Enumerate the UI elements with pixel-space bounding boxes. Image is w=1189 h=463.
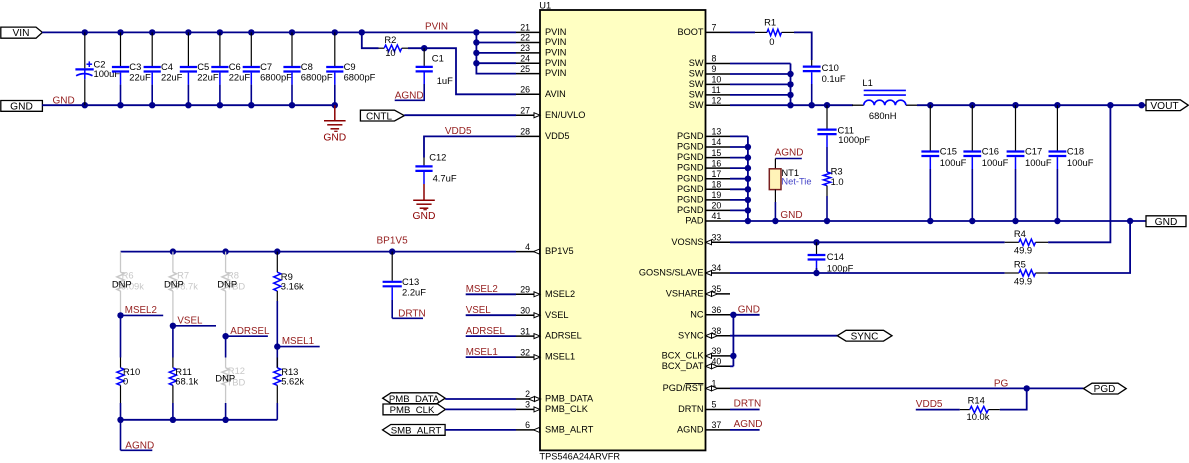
wire PGND pin 20	[730, 209, 748, 211]
IC U1 TPS546A24ARVFR body	[540, 10, 706, 450]
capacitor C16 100uF	[971, 105, 973, 150]
svg-text:PG: PG	[994, 378, 1009, 389]
dot C14 top	[813, 239, 819, 245]
svg-text:2.2uF: 2.2uF	[402, 287, 426, 298]
svg-text:10: 10	[712, 75, 722, 85]
port CNTL	[360, 110, 404, 121]
pin direction arrows right side	[706, 240, 712, 245]
wire column 2 VSEL to R11	[172, 326, 174, 358]
svg-text:PVIN: PVIN	[545, 27, 566, 37]
wire R1 to C10	[794, 32, 812, 60]
wire R14 to PGD node	[1000, 388, 1027, 409]
wire PGND pin 17	[730, 178, 748, 180]
svg-text:AVIN: AVIN	[545, 89, 566, 99]
wire NC/BCX tie bus	[732, 315, 734, 367]
dot GND rail	[969, 218, 975, 224]
svg-text:C17: C17	[1025, 145, 1042, 156]
port SMB_ALRT	[383, 425, 446, 436]
svg-text:0: 0	[123, 375, 128, 386]
capacitor C7 6800pF	[250, 32, 252, 66]
ground symbol below C12	[423, 184, 425, 200]
svg-text:C16: C16	[982, 145, 999, 156]
svg-text:GND: GND	[323, 133, 346, 144]
svg-text:19: 19	[712, 190, 722, 200]
svg-text:VIN: VIN	[13, 28, 30, 39]
svg-text:2: 2	[525, 389, 530, 399]
svg-text:10: 10	[385, 47, 395, 58]
svg-text:PMB_CLK: PMB_CLK	[390, 405, 435, 416]
svg-text:GND: GND	[1155, 217, 1178, 228]
svg-text:0.1uF: 0.1uF	[822, 73, 846, 84]
svg-text:PGND: PGND	[677, 205, 704, 215]
wire GOSNS pin 34	[730, 272, 1005, 274]
port SYNC	[837, 330, 892, 341]
dot VOUT rail	[1107, 102, 1113, 108]
wire GND rail (PAD pin 41)	[730, 220, 1146, 222]
svg-text:DNP: DNP	[217, 279, 237, 290]
svg-text:GND: GND	[738, 305, 760, 316]
U1 left pin numbers	[520, 23, 530, 431]
svg-text:R5: R5	[1014, 259, 1026, 270]
dot VOUT rail	[1012, 102, 1018, 108]
dot C14 bottom	[813, 270, 819, 276]
resistor R3 1.0	[823, 172, 830, 186]
svg-text:32: 32	[520, 347, 530, 357]
svg-text:4.7uF: 4.7uF	[433, 173, 457, 184]
svg-text:34: 34	[712, 263, 722, 273]
net label MSEL2 (array)	[117, 312, 123, 318]
dot GND rail	[1012, 218, 1018, 224]
dot NT1 at GND rail	[772, 218, 778, 224]
dot VOUT rail	[1054, 102, 1060, 108]
svg-text:R1: R1	[764, 16, 776, 27]
wire to R2	[362, 32, 379, 48]
svg-text:PGND: PGND	[677, 195, 704, 205]
capacitor C18 100uF	[1056, 105, 1058, 150]
dot resistor column tap on BP1V5	[274, 248, 280, 254]
svg-text:CNTL: CNTL	[366, 111, 393, 122]
svg-text:C13: C13	[402, 276, 419, 287]
pin direction arrows left side	[534, 113, 540, 118]
svg-text:22: 22	[520, 33, 530, 43]
svg-text:C14: C14	[827, 251, 844, 262]
svg-text:TPS546A24ARVFR: TPS546A24ARVFR	[540, 452, 621, 462]
svg-text:20: 20	[712, 201, 722, 211]
svg-text:39: 39	[712, 346, 722, 356]
svg-text:18: 18	[712, 180, 722, 190]
svg-text:C15: C15	[940, 145, 957, 156]
svg-text:PVIN: PVIN	[545, 58, 566, 68]
wire PGND pin 15	[730, 157, 748, 159]
svg-text:BOOT: BOOT	[677, 27, 703, 37]
svg-text:28: 28	[520, 127, 530, 137]
svg-text:30: 30	[520, 305, 530, 315]
dot SW bus at rail	[787, 102, 793, 108]
resistor R13 5.62k	[276, 347, 278, 368]
inductor L1 680nH	[852, 104, 864, 106]
svg-text:1000pF: 1000pF	[838, 134, 870, 145]
wire PVIN bus	[476, 32, 516, 73]
svg-text:GND: GND	[10, 101, 33, 112]
dot pin 39	[730, 353, 736, 359]
wire column 3 ADRSEL to R12	[225, 336, 227, 357]
wire SMB_ALRT to pin 6	[445, 429, 516, 431]
svg-text:100uF: 100uF	[1067, 157, 1094, 168]
net label VSEL (array)	[170, 323, 176, 329]
svg-text:PAD: PAD	[685, 216, 704, 226]
svg-text:C18: C18	[1067, 145, 1084, 156]
wire SW pin 9	[730, 73, 791, 75]
capacitor C14 100pF	[816, 242, 818, 254]
svg-text:SMB_ALRT: SMB_ALRT	[391, 425, 442, 436]
port PGD	[1084, 383, 1127, 394]
dot VOUT rail	[927, 102, 933, 108]
svg-text:C1: C1	[432, 53, 444, 64]
svg-text:26: 26	[520, 85, 530, 95]
wire R4 to VOUT rail	[1048, 105, 1110, 242]
U1 left pin names	[545, 27, 594, 435]
wire pin 39	[730, 355, 733, 357]
U1 right pin stubs	[706, 32, 731, 430]
svg-text:100pF: 100pF	[827, 263, 854, 274]
svg-text:C3: C3	[129, 61, 141, 72]
port VIN	[1, 27, 43, 38]
svg-text:DNP: DNP	[215, 372, 235, 383]
wire pin 36 stub	[730, 314, 760, 316]
svg-text:C6: C6	[229, 61, 241, 72]
svg-text:27: 27	[520, 105, 530, 115]
svg-text:23: 23	[520, 43, 530, 53]
capacitor C15 100uF	[929, 105, 931, 150]
svg-text:VOUT: VOUT	[1150, 101, 1178, 112]
resistor R4 49.9	[1005, 241, 1019, 243]
ground symbol below C9	[334, 105, 336, 121]
svg-text:VSHARE: VSHARE	[666, 289, 704, 299]
net label MSEL1 (array)	[274, 343, 280, 349]
net label ADRSEL (array)	[222, 333, 228, 339]
svg-text:GND: GND	[413, 211, 436, 222]
wire SYNC pin 38	[730, 335, 837, 337]
wire VOUT rail	[917, 104, 1146, 106]
svg-text:49.9: 49.9	[1014, 245, 1032, 256]
port GND (right)	[1146, 216, 1186, 227]
dot VOUT rail	[1138, 102, 1144, 108]
net label AGND (array)	[120, 420, 122, 451]
svg-text:GOSNS/SLAVE: GOSNS/SLAVE	[639, 268, 704, 278]
capacitor C6 22uF	[219, 32, 221, 66]
resistor R8 DNP TBD	[225, 252, 227, 273]
junction node C1/AVIN	[421, 45, 427, 51]
dot resistor column tap on BP1V5	[170, 248, 176, 254]
dot R14 tap	[1023, 385, 1029, 391]
svg-text:37: 37	[712, 420, 722, 430]
U1 right pin numbers	[712, 23, 722, 431]
capacitor C17 100uF	[1015, 105, 1017, 150]
capacitor C8 6800pF	[291, 32, 293, 66]
wire pin 40	[730, 365, 733, 367]
svg-text:7: 7	[712, 23, 717, 33]
capacitor C3 22uF	[120, 32, 122, 66]
wire VOSNS pin 33	[730, 241, 1005, 243]
svg-text:R4: R4	[1014, 228, 1026, 239]
svg-text:PGND: PGND	[677, 142, 704, 152]
port VOUT	[1146, 100, 1188, 111]
dot pin 36	[730, 312, 736, 318]
svg-text:MSEL1: MSEL1	[282, 336, 314, 347]
svg-text:BP1V5: BP1V5	[377, 235, 409, 246]
svg-text:1.0: 1.0	[831, 176, 844, 187]
svg-text:22uF: 22uF	[161, 72, 183, 83]
svg-text:6800pF: 6800pF	[344, 72, 376, 83]
svg-text:9: 9	[712, 64, 717, 74]
svg-text:C10: C10	[822, 62, 839, 73]
resistor R6 DNP 9.09k	[120, 252, 122, 273]
svg-text:68.1k: 68.1k	[175, 375, 198, 386]
svg-text:25: 25	[520, 64, 530, 74]
wire BOOT to R1	[730, 31, 755, 33]
dot VOUT rail	[969, 102, 975, 108]
svg-text:EN/UVLO: EN/UVLO	[545, 110, 585, 120]
U1 right pin names	[639, 27, 705, 435]
svg-text:C12: C12	[429, 151, 446, 162]
svg-text:SYNC: SYNC	[678, 330, 704, 340]
svg-text:MSEL2: MSEL2	[125, 305, 157, 316]
wire PGD pin 1	[730, 387, 1084, 389]
port PMB_DATA	[383, 393, 446, 404]
svg-text:U1: U1	[539, 1, 551, 11]
wire R5 to GND rail	[1048, 221, 1130, 273]
svg-text:PVIN: PVIN	[545, 68, 566, 78]
svg-text:14: 14	[712, 137, 722, 147]
dot bottom rail	[117, 417, 123, 423]
dot bottom rail	[170, 417, 176, 423]
resistor R1 0	[755, 31, 767, 33]
dot C11 node	[824, 102, 830, 108]
svg-text:SYNC: SYNC	[851, 331, 879, 342]
svg-text:SMB_ALRT: SMB_ALRT	[545, 425, 594, 435]
svg-text:21: 21	[520, 23, 530, 33]
svg-text:DRTN: DRTN	[678, 404, 703, 414]
wire VDD5 to C12	[424, 136, 516, 157]
capacitor C12 4.7uF	[423, 158, 425, 166]
capacitor C4 22uF	[151, 32, 153, 66]
svg-text:29: 29	[520, 285, 530, 295]
svg-text:VSEL: VSEL	[177, 315, 203, 326]
svg-text:17: 17	[712, 169, 722, 179]
svg-text:AGND: AGND	[775, 148, 804, 159]
dot GND rail	[1054, 218, 1060, 224]
svg-text:SW: SW	[689, 100, 704, 110]
wire PGND pin 19	[730, 199, 748, 201]
dot resistor column tap on BP1V5	[222, 248, 228, 254]
svg-text:31: 31	[520, 326, 530, 336]
svg-text:PGND: PGND	[677, 184, 704, 194]
svg-text:4: 4	[525, 242, 530, 252]
dot C10 node	[809, 102, 815, 108]
svg-text:6800pF: 6800pF	[301, 72, 333, 83]
svg-text:DRTN: DRTN	[734, 399, 762, 410]
svg-text:VDD5: VDD5	[545, 131, 570, 141]
dot PGND bus at GND rail	[745, 218, 751, 224]
wire R2 to C1 node	[408, 47, 424, 49]
svg-text:1uF: 1uF	[437, 75, 453, 86]
dot bottom rail	[222, 417, 228, 423]
svg-text:5.62k: 5.62k	[281, 375, 304, 386]
wire SW pin 11	[730, 94, 791, 96]
svg-text:49.9: 49.9	[1014, 275, 1032, 286]
svg-text:3: 3	[525, 400, 530, 410]
wire PGND pin 18	[730, 188, 748, 190]
svg-text:AGND: AGND	[734, 419, 763, 430]
resistor R10 0	[120, 358, 122, 368]
svg-text:BP1V5: BP1V5	[545, 246, 574, 256]
svg-text:6800pF: 6800pF	[260, 72, 292, 83]
svg-text:13: 13	[712, 127, 722, 137]
resistor R7 DNP 18.7k	[172, 252, 174, 273]
svg-text:10.0k: 10.0k	[967, 411, 990, 422]
wire PMB_DATA to pin 2	[445, 398, 516, 400]
svg-text:100uF: 100uF	[982, 157, 1009, 168]
svg-text:C7: C7	[260, 61, 272, 72]
svg-text:PVIN: PVIN	[545, 37, 566, 47]
port GND (left)	[1, 101, 43, 112]
svg-text:PGD/RST: PGD/RST	[663, 383, 704, 393]
svg-text:NC: NC	[690, 309, 704, 319]
svg-text:11: 11	[712, 85, 721, 95]
svg-text:VSEL: VSEL	[545, 310, 569, 320]
svg-text:BCX_DAT: BCX_DAT	[662, 361, 704, 371]
svg-text:R3: R3	[831, 165, 843, 176]
wire CNTL to EN/UVLO pin 27	[404, 114, 516, 116]
svg-text:DNP: DNP	[112, 279, 132, 290]
svg-text:PMB_CLK: PMB_CLK	[545, 404, 589, 414]
junction dots top rail	[82, 29, 88, 35]
wire pin 37 stub	[730, 429, 760, 431]
svg-text:22uF: 22uF	[129, 72, 151, 83]
svg-text:C9: C9	[344, 61, 356, 72]
svg-text:Net-Tie: Net-Tie	[781, 177, 811, 187]
svg-text:36: 36	[712, 305, 722, 315]
svg-text:PVIN: PVIN	[545, 48, 566, 58]
wire VDD5 to R14	[916, 409, 960, 411]
svg-text:5: 5	[712, 400, 717, 410]
svg-text:AGND: AGND	[677, 425, 704, 435]
wire PGND pin 14	[730, 146, 748, 148]
wire AVIN to pin 26	[424, 48, 516, 94]
wire SW bus	[790, 64, 792, 106]
resistor R9 3.16k	[276, 252, 278, 273]
wire PGND bus	[747, 136, 749, 221]
wire GND bottom rail	[42, 104, 335, 106]
svg-text:SW: SW	[689, 69, 704, 79]
wire PVIN to pin 24	[476, 62, 516, 64]
svg-text:SW: SW	[689, 58, 704, 68]
wire PMB_CLK to pin 3	[445, 408, 516, 410]
svg-text:PMB_DATA: PMB_DATA	[545, 394, 594, 404]
svg-text:22uF: 22uF	[197, 72, 219, 83]
svg-text:100uF: 100uF	[940, 157, 967, 168]
wire pin 5 stub	[730, 409, 760, 411]
dot GND rail	[1127, 218, 1133, 224]
dot C13 tap	[389, 248, 395, 254]
svg-text:BCX_CLK: BCX_CLK	[662, 351, 705, 361]
wire PVIN to pin 22	[476, 42, 516, 44]
svg-text:PGND: PGND	[677, 131, 704, 141]
wire PVIN to pin 23	[476, 52, 516, 54]
svg-text:MSEL2: MSEL2	[545, 289, 575, 299]
svg-text:ADRSEL: ADRSEL	[230, 326, 270, 337]
svg-text:PGND: PGND	[677, 173, 704, 183]
wire SW pin 10	[730, 83, 791, 85]
svg-text:C5: C5	[197, 61, 209, 72]
svg-text:0: 0	[769, 36, 774, 47]
svg-text:33: 33	[712, 233, 722, 243]
svg-text:100uF: 100uF	[1025, 157, 1052, 168]
svg-text:L1: L1	[862, 77, 872, 88]
resistor R14 10.0k	[960, 409, 970, 411]
svg-text:12: 12	[712, 95, 722, 105]
svg-text:PVIN: PVIN	[425, 21, 448, 32]
capacitor C13 2.2uF	[391, 252, 393, 281]
svg-text:6: 6	[525, 420, 530, 430]
svg-text:SW: SW	[689, 90, 704, 100]
svg-text:PGND: PGND	[677, 163, 704, 173]
svg-text:VDD5: VDD5	[445, 126, 472, 137]
capacitor C1 1uF	[423, 48, 425, 66]
wire column 1 MSEL2 to R10	[120, 315, 122, 357]
wire BP1V5 rail	[121, 251, 517, 253]
wire SW pin 8	[730, 63, 791, 65]
svg-text:8: 8	[712, 54, 717, 64]
dot GND rail	[927, 218, 933, 224]
capacitor C5 22uF	[187, 32, 189, 66]
port PMB_CLK	[383, 404, 445, 415]
svg-text:16: 16	[712, 158, 722, 168]
svg-text:PGD: PGD	[1094, 384, 1116, 395]
svg-text:DNP: DNP	[164, 279, 184, 290]
resistor R11 68.1k	[172, 358, 174, 368]
svg-text:GND: GND	[780, 210, 802, 221]
capacitor C9 6800pF	[334, 32, 336, 66]
svg-text:R2: R2	[384, 34, 396, 45]
svg-text:22uF: 22uF	[229, 72, 251, 83]
resistor R12 DNP TBD	[225, 358, 227, 368]
capacitor C10 0.1uF	[811, 60, 813, 66]
svg-text:15: 15	[712, 148, 722, 158]
wire PGND pin 13	[730, 135, 748, 137]
svg-text:SW: SW	[689, 79, 704, 89]
svg-text:VOSNS: VOSNS	[671, 237, 703, 247]
svg-text:C8: C8	[301, 61, 313, 72]
wire resistor array bottom rail	[121, 419, 278, 421]
wire PGND pin 16	[730, 167, 748, 169]
svg-text:PGND: PGND	[677, 152, 704, 162]
svg-text:VDD5: VDD5	[916, 399, 943, 410]
capacitor C11 1000pF	[826, 105, 828, 128]
capacitor C2 100uF polarized	[84, 32, 86, 68]
svg-text:680nH: 680nH	[869, 110, 897, 121]
svg-text:41: 41	[712, 211, 722, 221]
wire VIN top rail	[42, 31, 516, 33]
resistor R5 49.9	[1005, 272, 1019, 274]
svg-text:R14: R14	[968, 395, 985, 406]
wire SW rail to L1	[730, 104, 853, 106]
svg-text:C4: C4	[161, 61, 173, 72]
junction dots bottom rail	[82, 102, 88, 108]
U1 left pin stubs	[516, 32, 540, 430]
svg-text:PMB_DATA: PMB_DATA	[389, 394, 440, 405]
resistor R2 10	[379, 47, 385, 49]
